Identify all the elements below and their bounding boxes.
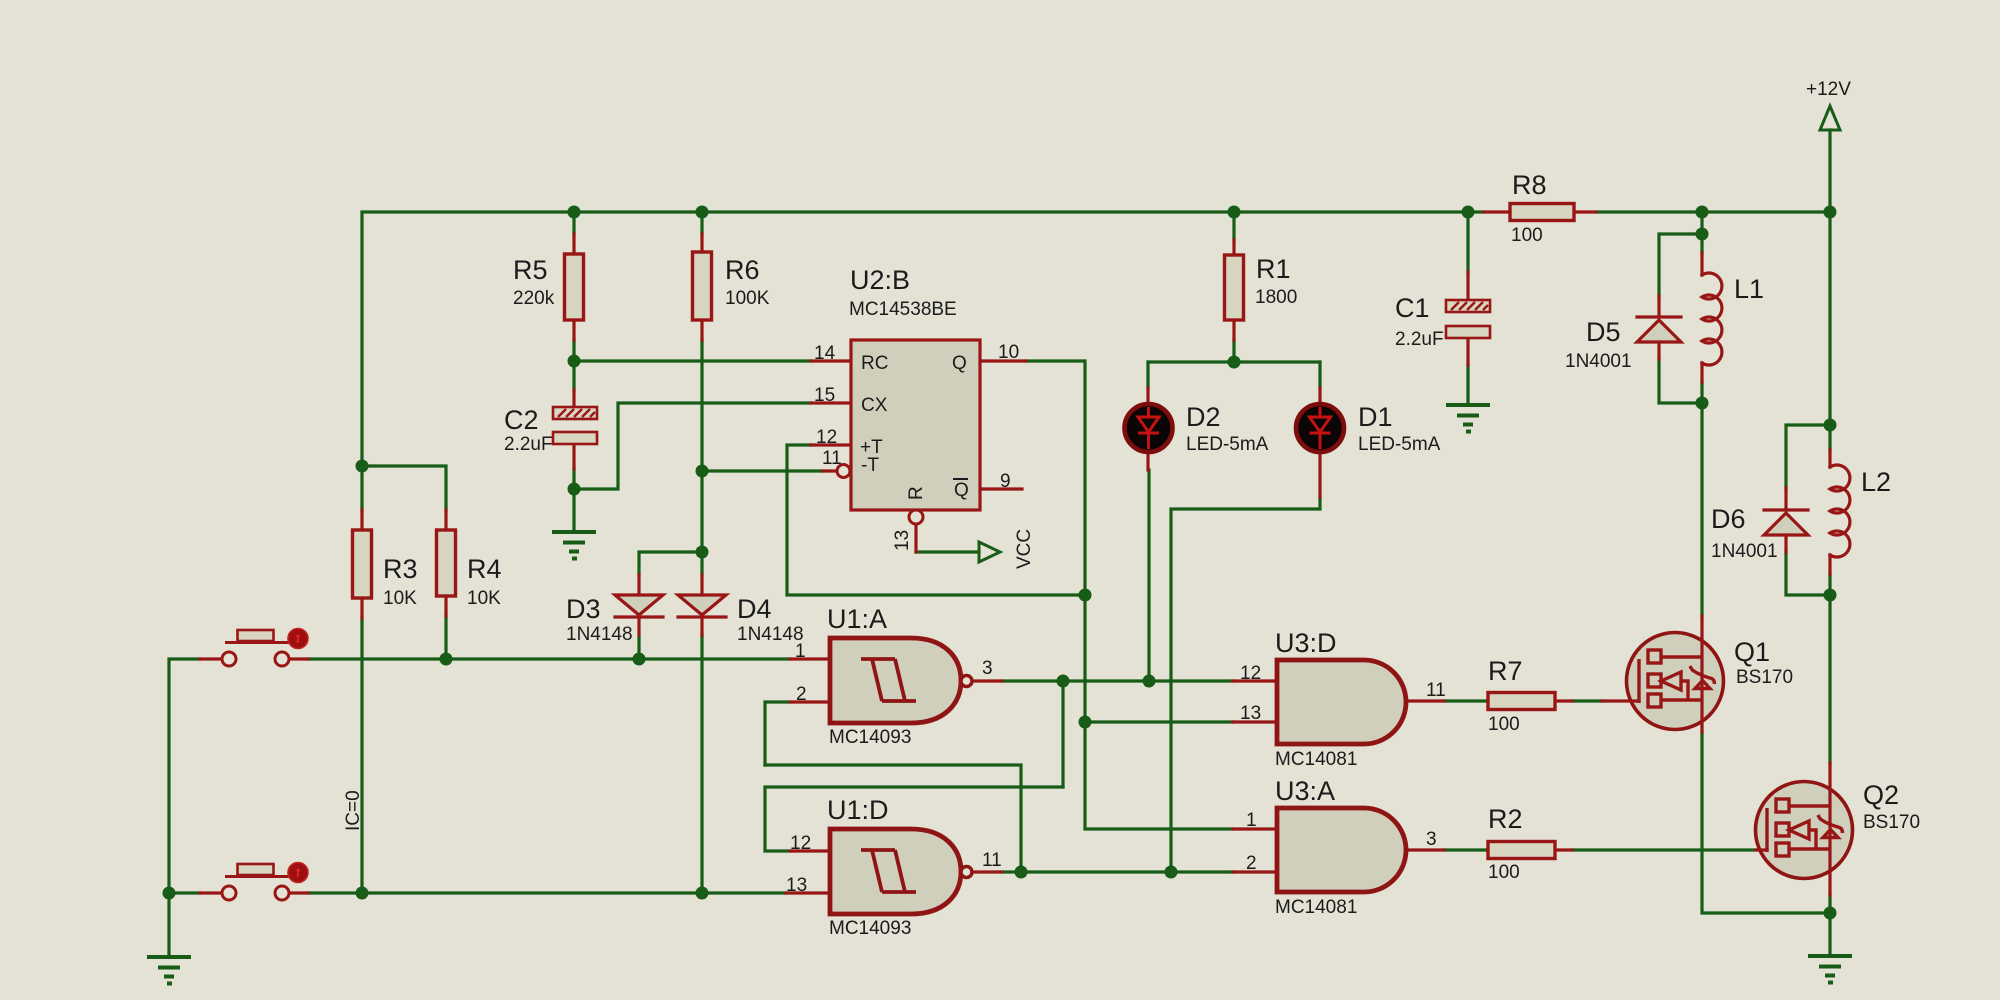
node R4-btn1 xyxy=(440,653,453,666)
svg-text:CX: CX xyxy=(861,395,888,416)
wire R3-R4 branch xyxy=(362,466,446,510)
svg-text:MC14081: MC14081 xyxy=(1275,897,1357,918)
wire C2 top xyxy=(572,361,575,390)
svg-text:13: 13 xyxy=(786,875,807,896)
svg-text:10K: 10K xyxy=(467,588,501,609)
wire +T pin12 loop to Q net xyxy=(787,445,1085,595)
resistor R6 xyxy=(693,234,770,340)
resistor R7 xyxy=(1488,656,1572,735)
inductor L2 xyxy=(1830,450,1891,574)
svg-text:C2: C2 xyxy=(504,405,539,435)
svg-text:2: 2 xyxy=(796,684,807,705)
node rail-R1 xyxy=(1228,206,1241,219)
node rail-12V xyxy=(1824,206,1837,219)
diode D6 1N4001 xyxy=(1711,488,1808,562)
wire L2 bottom xyxy=(1828,574,1831,595)
node rail-R5 xyxy=(568,206,581,219)
svg-text:U1:D: U1:D xyxy=(827,795,889,825)
node D3-btn1 xyxy=(633,653,646,666)
wire D1 cathode elbow xyxy=(1171,497,1320,872)
svg-text:MC14081: MC14081 xyxy=(1275,749,1357,770)
svg-text:11: 11 xyxy=(822,448,842,469)
svg-text:9: 9 xyxy=(1000,471,1011,492)
svg-text:R7: R7 xyxy=(1488,656,1523,686)
svg-text:12: 12 xyxy=(790,833,811,854)
svg-text:D2: D2 xyxy=(1186,402,1221,432)
wire Q2 drain xyxy=(1828,595,1831,763)
svg-text:13: 13 xyxy=(892,530,913,551)
push button lower xyxy=(200,863,308,901)
wire -T pin11 to column xyxy=(702,469,823,472)
wire top rail right (R8 to +12V column) xyxy=(1596,210,1830,213)
resistor R2 xyxy=(1488,804,1572,883)
wire R4 bottom to upper button net xyxy=(444,616,447,659)
wire R3 bottom to lower button net (IC=0) xyxy=(360,618,363,893)
diode D5 1N4001 xyxy=(1565,296,1681,372)
capacitor C1 xyxy=(1395,272,1490,365)
wire upper button to U1:A pin1 xyxy=(308,657,790,660)
wire CX elbow to U2 pin15 xyxy=(574,403,811,489)
node D3-D4 xyxy=(696,546,709,559)
wire +12V arrow drop xyxy=(1828,130,1831,212)
wire U1:A pin2 feedback xyxy=(765,702,790,765)
svg-text:11: 11 xyxy=(982,850,1002,871)
svg-text:MC14093: MC14093 xyxy=(829,918,911,939)
push button upper xyxy=(200,629,308,667)
svg-text:12: 12 xyxy=(816,427,837,448)
wire R5 bottom xyxy=(572,340,575,361)
node L1-top xyxy=(1696,228,1709,241)
svg-text:2.2uF: 2.2uF xyxy=(504,434,553,455)
wire D1 anode stub xyxy=(1318,362,1321,388)
svg-text:220k: 220k xyxy=(513,288,555,309)
wire R1 bottom xyxy=(1232,340,1235,362)
wire D5 bottom branch xyxy=(1659,359,1702,403)
node D1-pin2 xyxy=(1165,866,1178,879)
svg-text:R5: R5 xyxy=(513,255,548,285)
ground bottom right xyxy=(1808,956,1852,983)
wire top rail left (+12V rail from left corner to R8) xyxy=(362,212,1484,466)
svg-text:100: 100 xyxy=(1511,225,1543,246)
wire R2 to Q2 gate xyxy=(1572,848,1756,851)
node D4-btn2 xyxy=(696,887,709,900)
wire L1 top node xyxy=(1700,212,1703,253)
node Q2-source xyxy=(1824,907,1837,920)
svg-text:R6: R6 xyxy=(725,255,760,285)
svg-text:MC14538BE: MC14538BE xyxy=(849,299,957,320)
svg-text:10K: 10K xyxy=(383,588,417,609)
wire left rail to ground xyxy=(169,659,200,956)
svg-text:13: 13 xyxy=(1240,703,1261,724)
svg-text:R3: R3 xyxy=(383,554,418,584)
wire feedback to U1:D pin12 xyxy=(765,787,1063,851)
wire RC net to U2 pin14 xyxy=(574,359,811,362)
svg-text:1N4001: 1N4001 xyxy=(1711,541,1778,562)
node gnd-btn2 xyxy=(163,887,176,900)
power +12V arrow xyxy=(1820,106,1840,130)
svg-text:D1: D1 xyxy=(1358,402,1393,432)
svg-text:L2: L2 xyxy=(1861,467,1891,497)
svg-text:IC=0: IC=0 xyxy=(343,790,364,831)
resistor R1 xyxy=(1225,240,1298,340)
wire U1:D output node xyxy=(1002,870,1021,873)
svg-text:LED-5mA: LED-5mA xyxy=(1186,434,1269,455)
wire Q1 drain xyxy=(1700,403,1703,616)
NAND gate U1:A MC14093 xyxy=(790,604,1002,748)
wire C1 bottom to ground xyxy=(1466,365,1469,404)
svg-text:3: 3 xyxy=(982,658,993,679)
node Q-+T xyxy=(1079,589,1092,602)
node D2-pin12 xyxy=(1143,675,1156,688)
wire U2 Q pin10 vertical bus xyxy=(1026,361,1233,829)
node L2-top xyxy=(1824,419,1837,432)
wire L1 bottom xyxy=(1700,382,1703,403)
monostable U2:B MC14538BE xyxy=(811,265,1026,552)
svg-text:R4: R4 xyxy=(467,554,502,584)
svg-text:R1: R1 xyxy=(1256,254,1291,284)
node U1D-out xyxy=(1015,866,1028,879)
wire Q net to U3:D pin13 xyxy=(1085,720,1233,723)
svg-text:C1: C1 xyxy=(1395,293,1430,323)
ground bottom left xyxy=(147,957,191,984)
svg-text:D4: D4 xyxy=(737,594,772,624)
svg-text:Q: Q xyxy=(952,353,967,374)
svg-text:100K: 100K xyxy=(725,288,770,309)
wire U3:A out to R2 xyxy=(1444,848,1488,851)
node L2-bottom xyxy=(1824,589,1837,602)
AND gate U3:A MC14081 xyxy=(1233,776,1444,918)
node RC-C2 xyxy=(568,355,581,368)
node rail-C1 xyxy=(1462,206,1475,219)
svg-text:Q1: Q1 xyxy=(1734,637,1770,667)
svg-text:2: 2 xyxy=(1246,853,1257,874)
wire C1 top xyxy=(1466,212,1469,272)
wire C2 bottom to ground xyxy=(572,469,575,531)
svg-text:RC: RC xyxy=(861,353,888,374)
wire U1:A output feedback down xyxy=(1061,681,1064,787)
svg-text:U1:A: U1:A xyxy=(827,604,887,634)
wire R6 bottom column to D4 xyxy=(700,340,703,575)
svg-text:MC14093: MC14093 xyxy=(829,727,911,748)
resistor R5 xyxy=(513,234,584,340)
svg-text:100: 100 xyxy=(1488,714,1520,735)
svg-text:BS170: BS170 xyxy=(1863,812,1920,833)
power VCC arrow xyxy=(979,542,1000,562)
svg-text:1N4148: 1N4148 xyxy=(737,624,804,645)
wire D2 cathode column xyxy=(1147,470,1150,681)
svg-text:1N4001: 1N4001 xyxy=(1565,351,1632,372)
wire U1:A output node xyxy=(1002,679,1063,682)
ground under C2 xyxy=(552,532,596,559)
node rail-R6 xyxy=(696,206,709,219)
wire lower button left xyxy=(169,891,200,894)
svg-text:VCC: VCC xyxy=(1014,529,1035,569)
wire L2 D6 top branch xyxy=(1786,425,1830,488)
svg-text:3: 3 xyxy=(1426,829,1437,850)
node C2-CX xyxy=(568,483,581,496)
LED D2 xyxy=(1125,388,1269,470)
wire R7 to Q1 gate xyxy=(1572,699,1602,702)
svg-text:BS170: BS170 xyxy=(1736,667,1793,688)
node -T column xyxy=(696,465,709,478)
transistor Q2 BS170 xyxy=(1756,763,1921,895)
diode D4 1N4148 xyxy=(678,575,804,645)
svg-text:D5: D5 xyxy=(1586,317,1621,347)
svg-text:2.2uF: 2.2uF xyxy=(1395,329,1444,350)
node L1-bottom xyxy=(1696,397,1709,410)
wire R6 top xyxy=(700,212,703,234)
NAND gate U1:D MC14093 xyxy=(786,795,1002,939)
svg-text:-T: -T xyxy=(861,455,879,476)
node rail-L1 xyxy=(1696,206,1709,219)
wire Q2 source to ground xyxy=(1828,895,1831,955)
resistor R8 xyxy=(1484,170,1596,246)
wire L1 D5 top branch xyxy=(1659,234,1702,296)
wire +12V column to L2 xyxy=(1828,212,1831,450)
node U1A-out xyxy=(1057,675,1070,688)
svg-text:R2: R2 xyxy=(1488,804,1523,834)
svg-text:14: 14 xyxy=(814,343,836,364)
wire U3:D out to R7 xyxy=(1444,699,1488,702)
wire U1:D output to U3:A pin2 xyxy=(1021,870,1233,873)
svg-text:D3: D3 xyxy=(566,594,601,624)
svg-text:12: 12 xyxy=(1240,663,1261,684)
node Q-pin13 xyxy=(1079,716,1092,729)
svg-text:15: 15 xyxy=(814,385,835,406)
AND gate U3:D MC14081 xyxy=(1233,628,1446,770)
node R1-LED xyxy=(1228,356,1241,369)
wire R1 top xyxy=(1232,212,1235,240)
LED D1 xyxy=(1296,388,1441,497)
wire U1:A output to U3:D pin12 xyxy=(1063,679,1233,682)
svg-text:10: 10 xyxy=(998,342,1019,363)
svg-text:R: R xyxy=(906,486,927,500)
wire D4 bottom to lower button net xyxy=(700,635,703,893)
svg-text:11: 11 xyxy=(1426,680,1446,701)
wire R5 top xyxy=(572,212,575,234)
wire D3 branch xyxy=(639,552,702,575)
wire Q1 source to ground bus xyxy=(1702,732,1830,913)
svg-text:R8: R8 xyxy=(1512,170,1547,200)
node R3-R4 xyxy=(356,460,369,473)
svg-text:U3:A: U3:A xyxy=(1275,776,1335,806)
svg-text:+12V: +12V xyxy=(1806,79,1851,100)
transistor Q1 BS170 xyxy=(1602,616,1793,732)
wire D2 anode stub xyxy=(1146,362,1149,388)
svg-text:L1: L1 xyxy=(1734,274,1764,304)
capacitor C2 xyxy=(504,390,597,469)
svg-text:1N4148: 1N4148 xyxy=(566,624,633,645)
wire lower button to U1:D pin13 xyxy=(308,891,786,894)
svg-text:D6: D6 xyxy=(1711,504,1746,534)
svg-text:1: 1 xyxy=(1246,810,1257,831)
wire LED anode rail xyxy=(1148,360,1320,363)
svg-text:Q: Q xyxy=(954,480,969,501)
resistor R4 xyxy=(437,510,502,616)
ground under C1 xyxy=(1446,405,1490,432)
wire D6 bottom branch xyxy=(1786,552,1830,595)
diode D3 1N4148 xyxy=(566,575,663,645)
resistor R3 xyxy=(353,510,418,618)
svg-text:Q2: Q2 xyxy=(1863,780,1899,810)
svg-text:100: 100 xyxy=(1488,862,1520,883)
svg-text:1800: 1800 xyxy=(1255,287,1297,308)
wire R3 top xyxy=(360,466,363,510)
svg-text:1: 1 xyxy=(795,641,806,662)
svg-text:LED-5mA: LED-5mA xyxy=(1358,434,1441,455)
wire U2 reset pin13 to VCC arrow xyxy=(916,550,979,553)
wire U1:D output feedback across xyxy=(765,765,1021,872)
svg-text:U2:B: U2:B xyxy=(850,265,910,295)
node R3-btn2 xyxy=(356,887,369,900)
svg-text:U3:D: U3:D xyxy=(1275,628,1337,658)
wire D3 bottom xyxy=(637,635,640,659)
inductor L1 xyxy=(1702,253,1764,382)
